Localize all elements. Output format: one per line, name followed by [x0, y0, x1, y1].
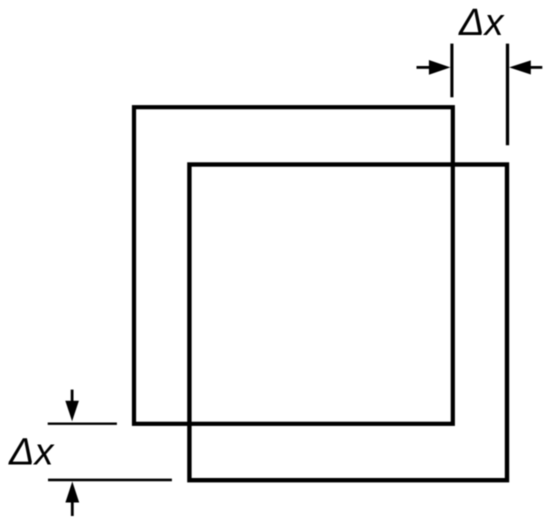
top dimension: right extension line: [506, 44, 509, 146]
top dimension: left extension line: [450, 44, 453, 98]
bottom dimension: down arrowhead: [65, 401, 79, 421]
square 2 (lower-right): [189, 165, 507, 481]
top dimension: right arrow tail: [528, 66, 542, 69]
svg-text:Δx: Δx: [8, 431, 55, 473]
bottom dimension: down arrow tail: [71, 390, 74, 404]
bottom dimension: upper extension line: [48, 423, 117, 425]
top dimension: left arrow tail: [417, 66, 433, 69]
top dimension: right arrowhead (points left): [509, 60, 531, 74]
square 1 (upper-left): [134, 107, 453, 424]
svg-text:Δx: Δx: [458, 2, 505, 44]
bottom dimension: up arrow tail: [71, 500, 74, 516]
bottom dimension: lower extension line: [48, 479, 172, 482]
bottom dimension: up arrowhead: [65, 482, 79, 503]
top dimension: left arrowhead (points right): [429, 60, 451, 75]
